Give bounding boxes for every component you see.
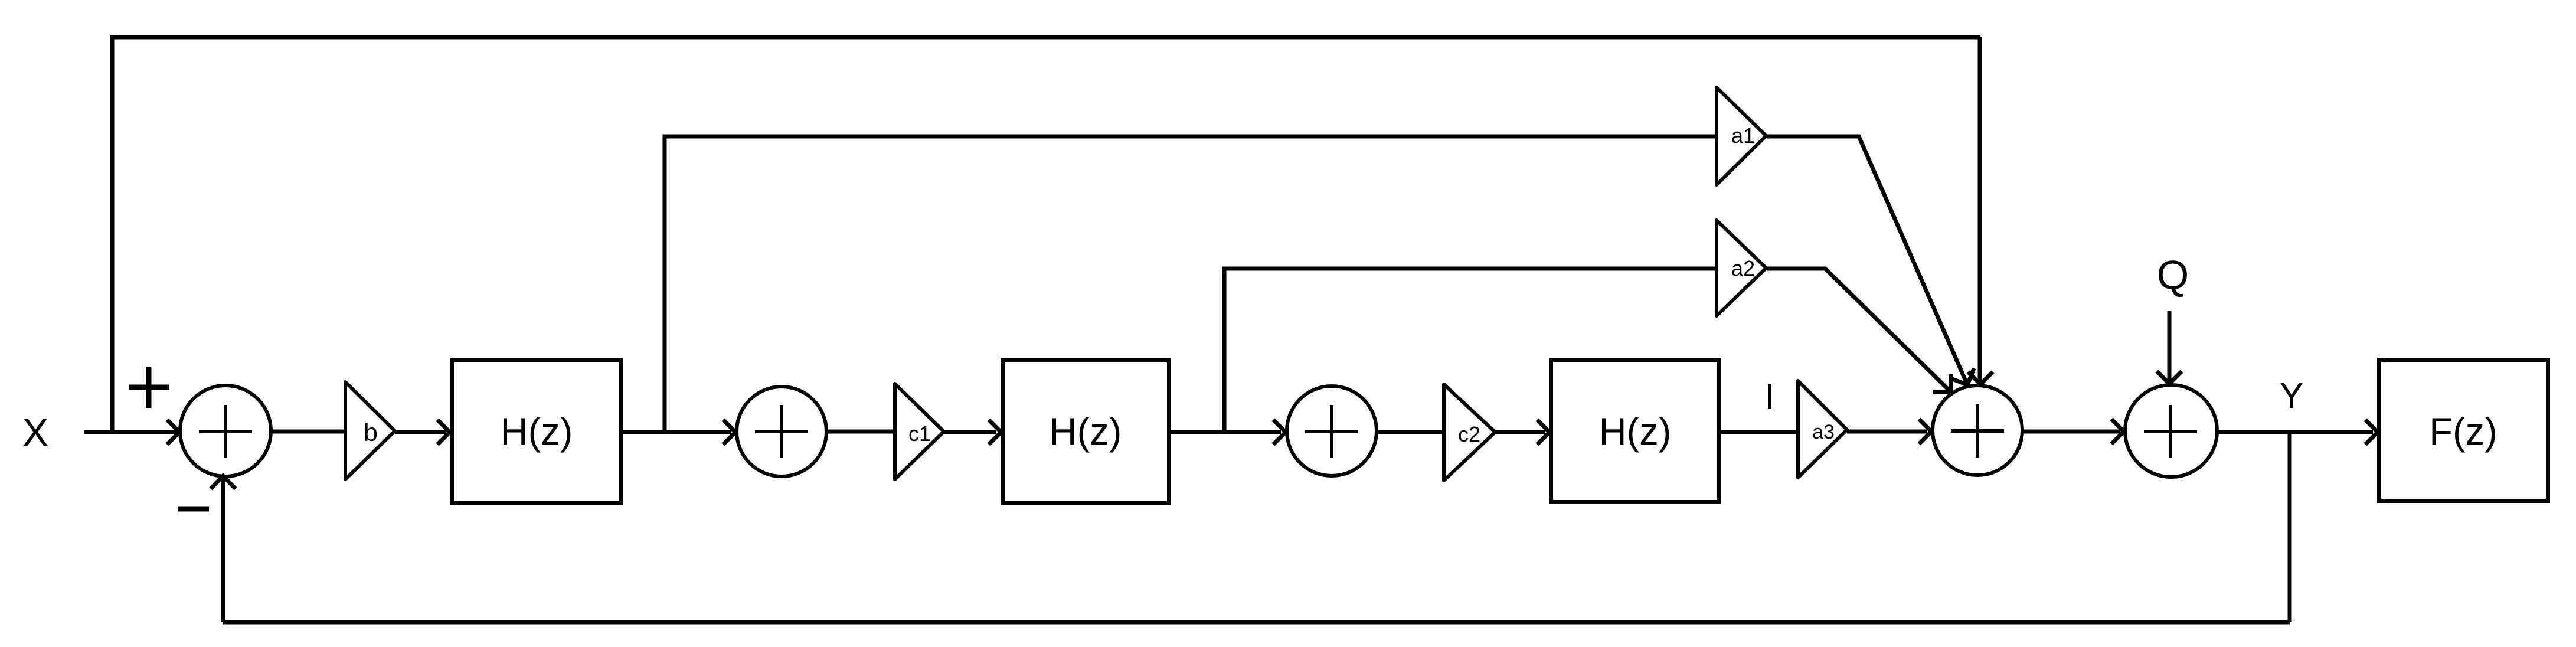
plus cross inside S5 xyxy=(2144,405,2197,458)
wire: H1 output to S2 xyxy=(623,430,731,434)
svg-text:H(z): H(z) xyxy=(501,410,573,453)
gain c1 xyxy=(895,384,944,479)
wire: H2 output to S3 xyxy=(1171,430,1281,434)
wire: X feedforward drop to S4 xyxy=(1978,37,1982,381)
wire: X input to summing junction S1 xyxy=(84,430,177,434)
wire: a3 to S4 xyxy=(1847,430,1927,434)
arrowhead: Q into S5 top xyxy=(2157,371,2182,384)
gain a2 xyxy=(1717,220,1766,316)
svg-text:c1: c1 xyxy=(908,421,931,446)
wire: feedforward 1 riser and horizontal to a1 xyxy=(665,136,1717,432)
wire: Q into S5 xyxy=(2168,311,2172,381)
plus cross inside S4 xyxy=(1951,404,2004,458)
wire: S3 to gain c2 xyxy=(1378,430,1444,434)
arrowhead: a1 into S4 xyxy=(1951,368,1974,385)
integrator H2 xyxy=(1003,361,1169,504)
plus sign at S1 input xyxy=(129,367,169,408)
arrowhead into S4 left xyxy=(1919,419,1931,444)
wire: c2 to integrator H3 xyxy=(1495,430,1545,434)
plus cross inside S3 xyxy=(1305,405,1358,458)
arrowhead into S1 left xyxy=(167,420,179,445)
svg-text:H(z): H(z) xyxy=(1599,410,1672,453)
arrowhead: feedforward into S4 top xyxy=(1968,372,1993,384)
wire: a1 output to S4 (with diagonal) xyxy=(1767,136,1967,385)
wire: feedforward 2 riser and horizontal to a2 xyxy=(1224,269,1717,432)
gain c2 xyxy=(1444,384,1495,481)
svg-text:I: I xyxy=(1764,377,1774,417)
wire: X feedforward top horizontal xyxy=(110,35,1980,40)
arrowhead into S2 left xyxy=(723,420,735,445)
minus sign for feedback into S1 xyxy=(178,507,209,512)
wire: bottom feedback run xyxy=(223,620,2290,625)
arrowhead into H1 xyxy=(437,420,450,445)
gain b xyxy=(345,382,395,479)
arrowhead into S5 left xyxy=(2111,419,2124,444)
summing junction S3 xyxy=(1287,386,1377,476)
summing junction S4 xyxy=(1933,385,2022,475)
wire: a2 output to S4 (with diagonal) xyxy=(1767,269,1951,392)
arrowhead into H3 xyxy=(1537,420,1549,445)
arrowhead into S1 bottom xyxy=(211,476,236,489)
arrowhead into H2 xyxy=(989,420,1001,445)
wire: X feedforward riser (left vertical) xyxy=(110,37,115,432)
integrator H3 xyxy=(1551,360,1719,502)
gain a1 xyxy=(1717,87,1766,185)
plus cross inside S2 xyxy=(755,405,808,458)
svg-text:a1: a1 xyxy=(1731,123,1755,148)
wire: Y feedback drop xyxy=(2288,432,2292,622)
wire: S5 to quantizer F(z) xyxy=(2218,430,2373,434)
wire: S4 to S5 xyxy=(2023,430,2120,434)
svg-text:b: b xyxy=(364,419,378,447)
svg-text:c2: c2 xyxy=(1458,422,1480,446)
wire: feedback riser into S1 bottom xyxy=(221,479,225,622)
gain a3 xyxy=(1798,381,1847,478)
svg-text:a2: a2 xyxy=(1731,256,1755,280)
svg-text:H(z): H(z) xyxy=(1050,410,1122,453)
wire: H3 output to gain a3 xyxy=(1721,430,1798,434)
plus cross inside S1 xyxy=(199,405,252,458)
integrator H1 xyxy=(452,360,622,504)
arrowhead: a2 into S4 xyxy=(1933,374,1951,392)
svg-text:X: X xyxy=(22,410,48,455)
arrowhead into S3 left xyxy=(1273,420,1286,445)
wire: S2 to gain c1 xyxy=(827,430,895,434)
wire: S1 to gain b xyxy=(271,430,345,434)
svg-text:Q: Q xyxy=(2157,252,2189,298)
svg-text:Y: Y xyxy=(2279,375,2303,416)
quantizer F(z) xyxy=(2379,360,2548,501)
wire: b to integrator H1 xyxy=(395,430,446,434)
wire: c1 to integrator H2 xyxy=(944,430,996,434)
summing junction S2 xyxy=(737,387,826,476)
svg-text:F(z): F(z) xyxy=(2429,410,2497,453)
summing junction S5 xyxy=(2125,385,2217,477)
summing junction S1 xyxy=(180,385,271,476)
svg-text:a3: a3 xyxy=(1812,421,1835,443)
arrowhead into F(z) xyxy=(2365,420,2378,445)
